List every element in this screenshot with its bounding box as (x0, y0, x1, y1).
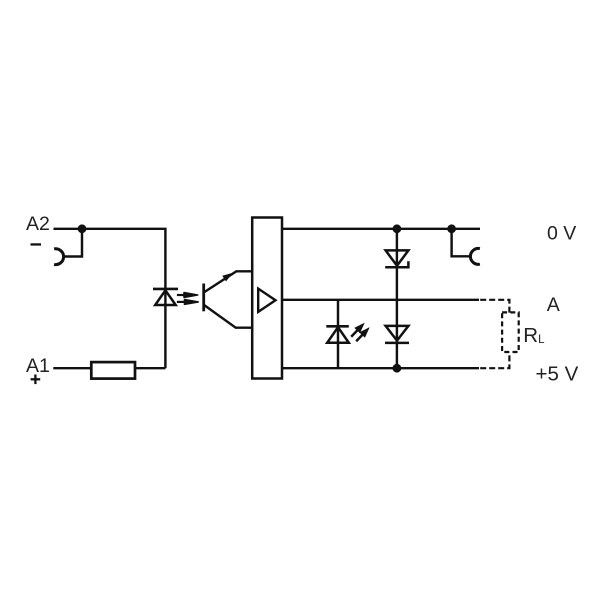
wire 0V node to clamp contact (452, 229, 471, 256)
diode body (386, 326, 409, 341)
node terminal on 0V rail (447, 224, 456, 233)
+5V rail dashed (480, 352, 509, 368)
diode cathode bar (385, 342, 409, 345)
zener cathode bar (385, 261, 408, 267)
indicator LED cathode bar (326, 325, 349, 328)
indicator LED body (327, 327, 349, 343)
node junction on A2 wire (78, 224, 87, 233)
svg-text:A2: A2 (26, 213, 50, 235)
light emission arrow 1 (177, 293, 198, 298)
svg-text:0 V: 0 V (547, 223, 576, 245)
output rail solid (282, 299, 479, 301)
phototransistor collector line down (204, 305, 253, 328)
input resistor (91, 362, 135, 379)
node zener on 0V rail (393, 224, 402, 233)
output rail dashed (480, 300, 509, 313)
wire A1 to resistor (53, 367, 91, 369)
0V rail wire (282, 228, 480, 230)
LED emission arrow 1 (348, 320, 367, 339)
driver block (252, 218, 282, 379)
+5V rail solid (282, 367, 479, 369)
wire junction to clamp contact (63, 229, 82, 257)
phototransistor base bar (202, 284, 205, 312)
clamp contact A2 (54, 249, 63, 265)
load resistor RL (502, 312, 519, 352)
wire A2 to LED branch and down (54, 229, 166, 368)
LED emission arrow 2 (353, 324, 372, 343)
wire resistor to LED branch (135, 367, 165, 369)
svg-text:+5 V: +5 V (536, 362, 579, 385)
svg-text:A1: A1 (26, 355, 50, 377)
light emission arrow 2 (177, 300, 198, 305)
zener diode body (386, 250, 409, 265)
plus polarity mark (31, 375, 41, 385)
svg-text:A: A (547, 294, 560, 316)
indicator branch wire (337, 300, 339, 368)
optocoupler LED cathode bar (153, 288, 178, 291)
emitter arrowhead (222, 273, 233, 282)
phototransistor emitter line up (204, 271, 253, 292)
optocoupler LED body (155, 290, 176, 305)
node on +5V rail (393, 364, 402, 373)
minus polarity mark (31, 243, 42, 245)
clamp contact 0V (470, 248, 479, 264)
suppressor vertical wire (396, 229, 398, 368)
buffer triangle symbol (258, 289, 275, 312)
